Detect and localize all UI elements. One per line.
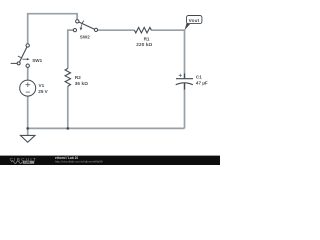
switch SW2	[73, 20, 97, 32]
wire: SW2 right throw to R1 left	[98, 29, 135, 31]
wire: SW1 bottom terminal to V1 top	[27, 67, 29, 80]
SW1 left throw terminal	[17, 62, 20, 65]
svg-text:47 µF: 47 µF	[196, 81, 208, 86]
C1 polarity plus sign	[179, 74, 182, 76]
SW1 blade	[19, 47, 27, 62]
capacitor C1	[176, 74, 193, 90]
wire: C1 bottom to bottom rail	[184, 84, 186, 129]
resistor R2	[65, 68, 70, 86]
junction dot (R2 bottom on rail)	[67, 127, 70, 130]
svg-text:220 kΩ: 220 kΩ	[136, 42, 152, 47]
SW2 right throw terminal	[94, 28, 97, 31]
footer watermark bar	[0, 156, 220, 165]
SW1 actuator tick	[18, 56, 22, 58]
svg-text:25 V: 25 V	[38, 89, 48, 94]
C1 bottom curved plate	[176, 83, 193, 85]
resistor R1	[134, 27, 151, 33]
SW1 actuator arrow	[22, 58, 27, 60]
wire: top-left loop (left vertical top, top horizontal, SW2 pivot stub)	[28, 14, 77, 44]
C1 bottom lead	[184, 83, 186, 90]
svg-text:36 kΩ: 36 kΩ	[75, 81, 89, 86]
SW2 actuator arrow	[80, 24, 83, 28]
wire: R1 right to Vout corner and down to C1	[151, 30, 184, 78]
C1 top lead	[184, 74, 186, 79]
junction dot (bottom-left, ground node)	[26, 127, 29, 130]
ground	[20, 135, 35, 142]
SW1 top terminal	[26, 44, 29, 47]
svg-text:LAB: LAB	[25, 160, 31, 164]
voltage source V1	[20, 80, 36, 96]
svg-text:R2: R2	[75, 75, 81, 80]
wire: R2 bottom to bottom rail	[67, 86, 69, 128]
svg-text:SW1: SW1	[32, 58, 42, 63]
node Vout probe tail	[185, 22, 191, 30]
SW2 left throw terminal	[73, 29, 76, 32]
switch SW1	[11, 44, 30, 68]
SW1 bottom terminal	[26, 64, 29, 67]
svg-text:Vout: Vout	[189, 18, 200, 23]
svg-text:V1: V1	[39, 83, 45, 88]
SW2 blade	[79, 22, 95, 29]
SW1 unconnected throw stub	[11, 62, 17, 64]
svg-text:R1: R1	[144, 37, 150, 42]
C1 top plate	[176, 78, 193, 80]
CircuitLab logo LAB badge	[23, 161, 35, 164]
SW2 actuator tick	[82, 21, 84, 25]
V1 plus sign	[25, 84, 30, 86]
wire: V1 bottom to bottom-left junction	[27, 96, 29, 128]
CircuitLab logo sine squiggle	[11, 161, 22, 164]
svg-text:C1: C1	[196, 74, 202, 79]
V1 minus sign	[26, 91, 30, 93]
wire: SW2 left throw to R2 top	[68, 30, 74, 68]
wire: ground stub	[27, 128, 29, 135]
node Vout label box	[187, 16, 202, 24]
svg-text:http://circuitlab.com/c6djmzmk: http://circuitlab.com/c6djmzmk8fa99	[55, 160, 103, 164]
wire: bottom horizontal rail	[28, 127, 185, 129]
SW2 pivot terminal	[76, 20, 79, 23]
svg-text:SW2: SW2	[80, 35, 90, 40]
